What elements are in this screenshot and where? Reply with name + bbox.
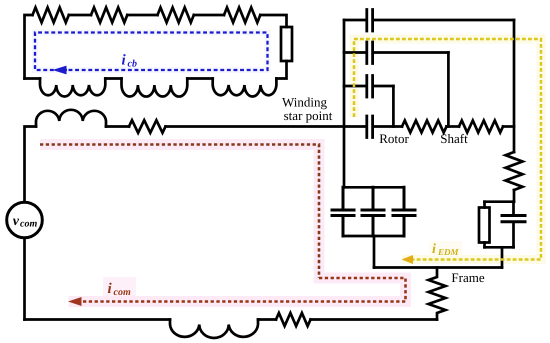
wire: [105, 77, 121, 80]
resistor R1 (stator winding, top edge): [33, 8, 69, 23]
capacitor C7 (bank right): [393, 187, 415, 236]
capacitor C2 (line 2): [367, 42, 373, 64]
wire to star point: [166, 125, 345, 128]
wire: [374, 51, 448, 54]
inductor Lg (bottom wire): [170, 320, 258, 338]
svg-text:EDM: EDM: [437, 247, 460, 257]
halo of loop current path icb: [35, 33, 268, 71]
wire vertical line2 to rotor wire: [447, 53, 450, 127]
capacitor C6 (bank middle): [362, 187, 384, 236]
bottom wire: [25, 318, 171, 321]
halo of iEDM label: [429, 241, 462, 256]
resistor Rs (winding star-point line): [129, 120, 166, 133]
svg-text:star point: star point: [284, 108, 333, 123]
frame rail wire: [374, 266, 502, 269]
resistor R3 (stator winding, top edge): [158, 8, 194, 23]
line 3 wire: [344, 85, 365, 88]
bus vertical from top line to capacitor bank: [343, 20, 346, 187]
wire to top-right corner: [260, 15, 286, 27]
wire to right bus: [503, 125, 514, 128]
wire from vcom up to star-point line: [25, 127, 37, 203]
capacitor bank bottom rail: [343, 235, 404, 238]
resistor Rb (box, right edge of stator loop): [281, 27, 292, 61]
wire: [374, 125, 402, 128]
resistor Rf (frame, vertical): [429, 268, 446, 320]
wire capacitor bank to frame rail: [373, 236, 376, 268]
loop current path icb (blue dashed): [35, 33, 268, 71]
svg-text:com: com: [114, 287, 131, 298]
halo of icom label: [103, 277, 136, 296]
rotor line wire: [344, 125, 365, 128]
svg-text:com: com: [20, 219, 37, 230]
arrow of icom: [68, 297, 82, 306]
capacitor C1 (winding-to-frame, top line): [367, 10, 373, 32]
wire below Cb: [512, 223, 515, 247]
arrow of iEDM: [402, 255, 414, 264]
wire to RC block: [513, 190, 516, 202]
resistor R2 (stator winding, top edge): [91, 8, 127, 23]
resistor Shaft: [459, 121, 503, 133]
line 2 wire: [344, 51, 365, 54]
svg-text:Frame: Frame: [451, 270, 484, 285]
halo of EDM current path iEDM: [354, 39, 541, 260]
wire RC block to frame rail: [501, 247, 504, 267]
EDM current path iEDM (yellow dashed): [354, 39, 541, 260]
wire from vcom to bottom rail: [23, 238, 26, 320]
resistor Rbr (bearing, vertical right bus): [506, 152, 523, 190]
resistor Rg (bottom wire): [276, 313, 311, 326]
wire top rail to capacitor Cb: [512, 202, 515, 214]
capacitor C3 (line 3): [367, 76, 373, 98]
capacitor C5 (bank left): [332, 187, 354, 236]
right bus vertical: [513, 20, 516, 152]
svg-text:Rotor: Rotor: [379, 131, 409, 146]
capacitor bank top rail: [343, 186, 404, 189]
wire below box: [483, 243, 486, 248]
inductor La (stator loop bottom, left group): [40, 79, 105, 97]
inductor Lc (stator loop bottom, right group): [213, 79, 277, 97]
wire: [194, 14, 224, 17]
halo of common-mode current path icom: [40, 145, 406, 302]
inductor Ls (winding star-point line): [36, 110, 106, 127]
RC block bottom rail: [485, 246, 514, 249]
capacitor Cb (bearing): [502, 216, 525, 222]
common-mode current path icom (dark red dashed): [40, 145, 406, 302]
resistor R4 (stator winding, top edge): [224, 8, 260, 23]
top line 1 wire: [344, 19, 365, 22]
wire sloping to frame resistor: [311, 318, 438, 321]
wire to box resistor: [483, 202, 486, 208]
wire: [258, 318, 276, 321]
RC block top rail: [485, 200, 515, 203]
stator loop left edge: [25, 15, 33, 79]
wire: [25, 77, 41, 80]
inductor Lb (stator loop bottom, middle group): [122, 79, 188, 97]
resistor Rbox (bearing, box): [479, 208, 490, 243]
svg-text:Shaft: Shaft: [440, 131, 468, 146]
voltage source vcom: [7, 202, 43, 238]
wire: [374, 85, 393, 88]
wire: [374, 19, 514, 22]
wire vertical line3 to rotor wire: [392, 86, 395, 127]
svg-text:v: v: [13, 214, 20, 229]
wire: [187, 77, 212, 80]
wire below box: [276, 61, 286, 79]
wire: [106, 125, 129, 128]
svg-text:cb: cb: [128, 59, 137, 70]
svg-text:i: i: [432, 242, 436, 257]
wire: [447, 125, 460, 128]
capacitor C4 (winding-to-rotor): [367, 116, 373, 138]
resistor Rotor: [402, 121, 447, 133]
wire: [127, 14, 157, 17]
arrow of icb: [53, 66, 67, 75]
wire: [69, 14, 91, 17]
